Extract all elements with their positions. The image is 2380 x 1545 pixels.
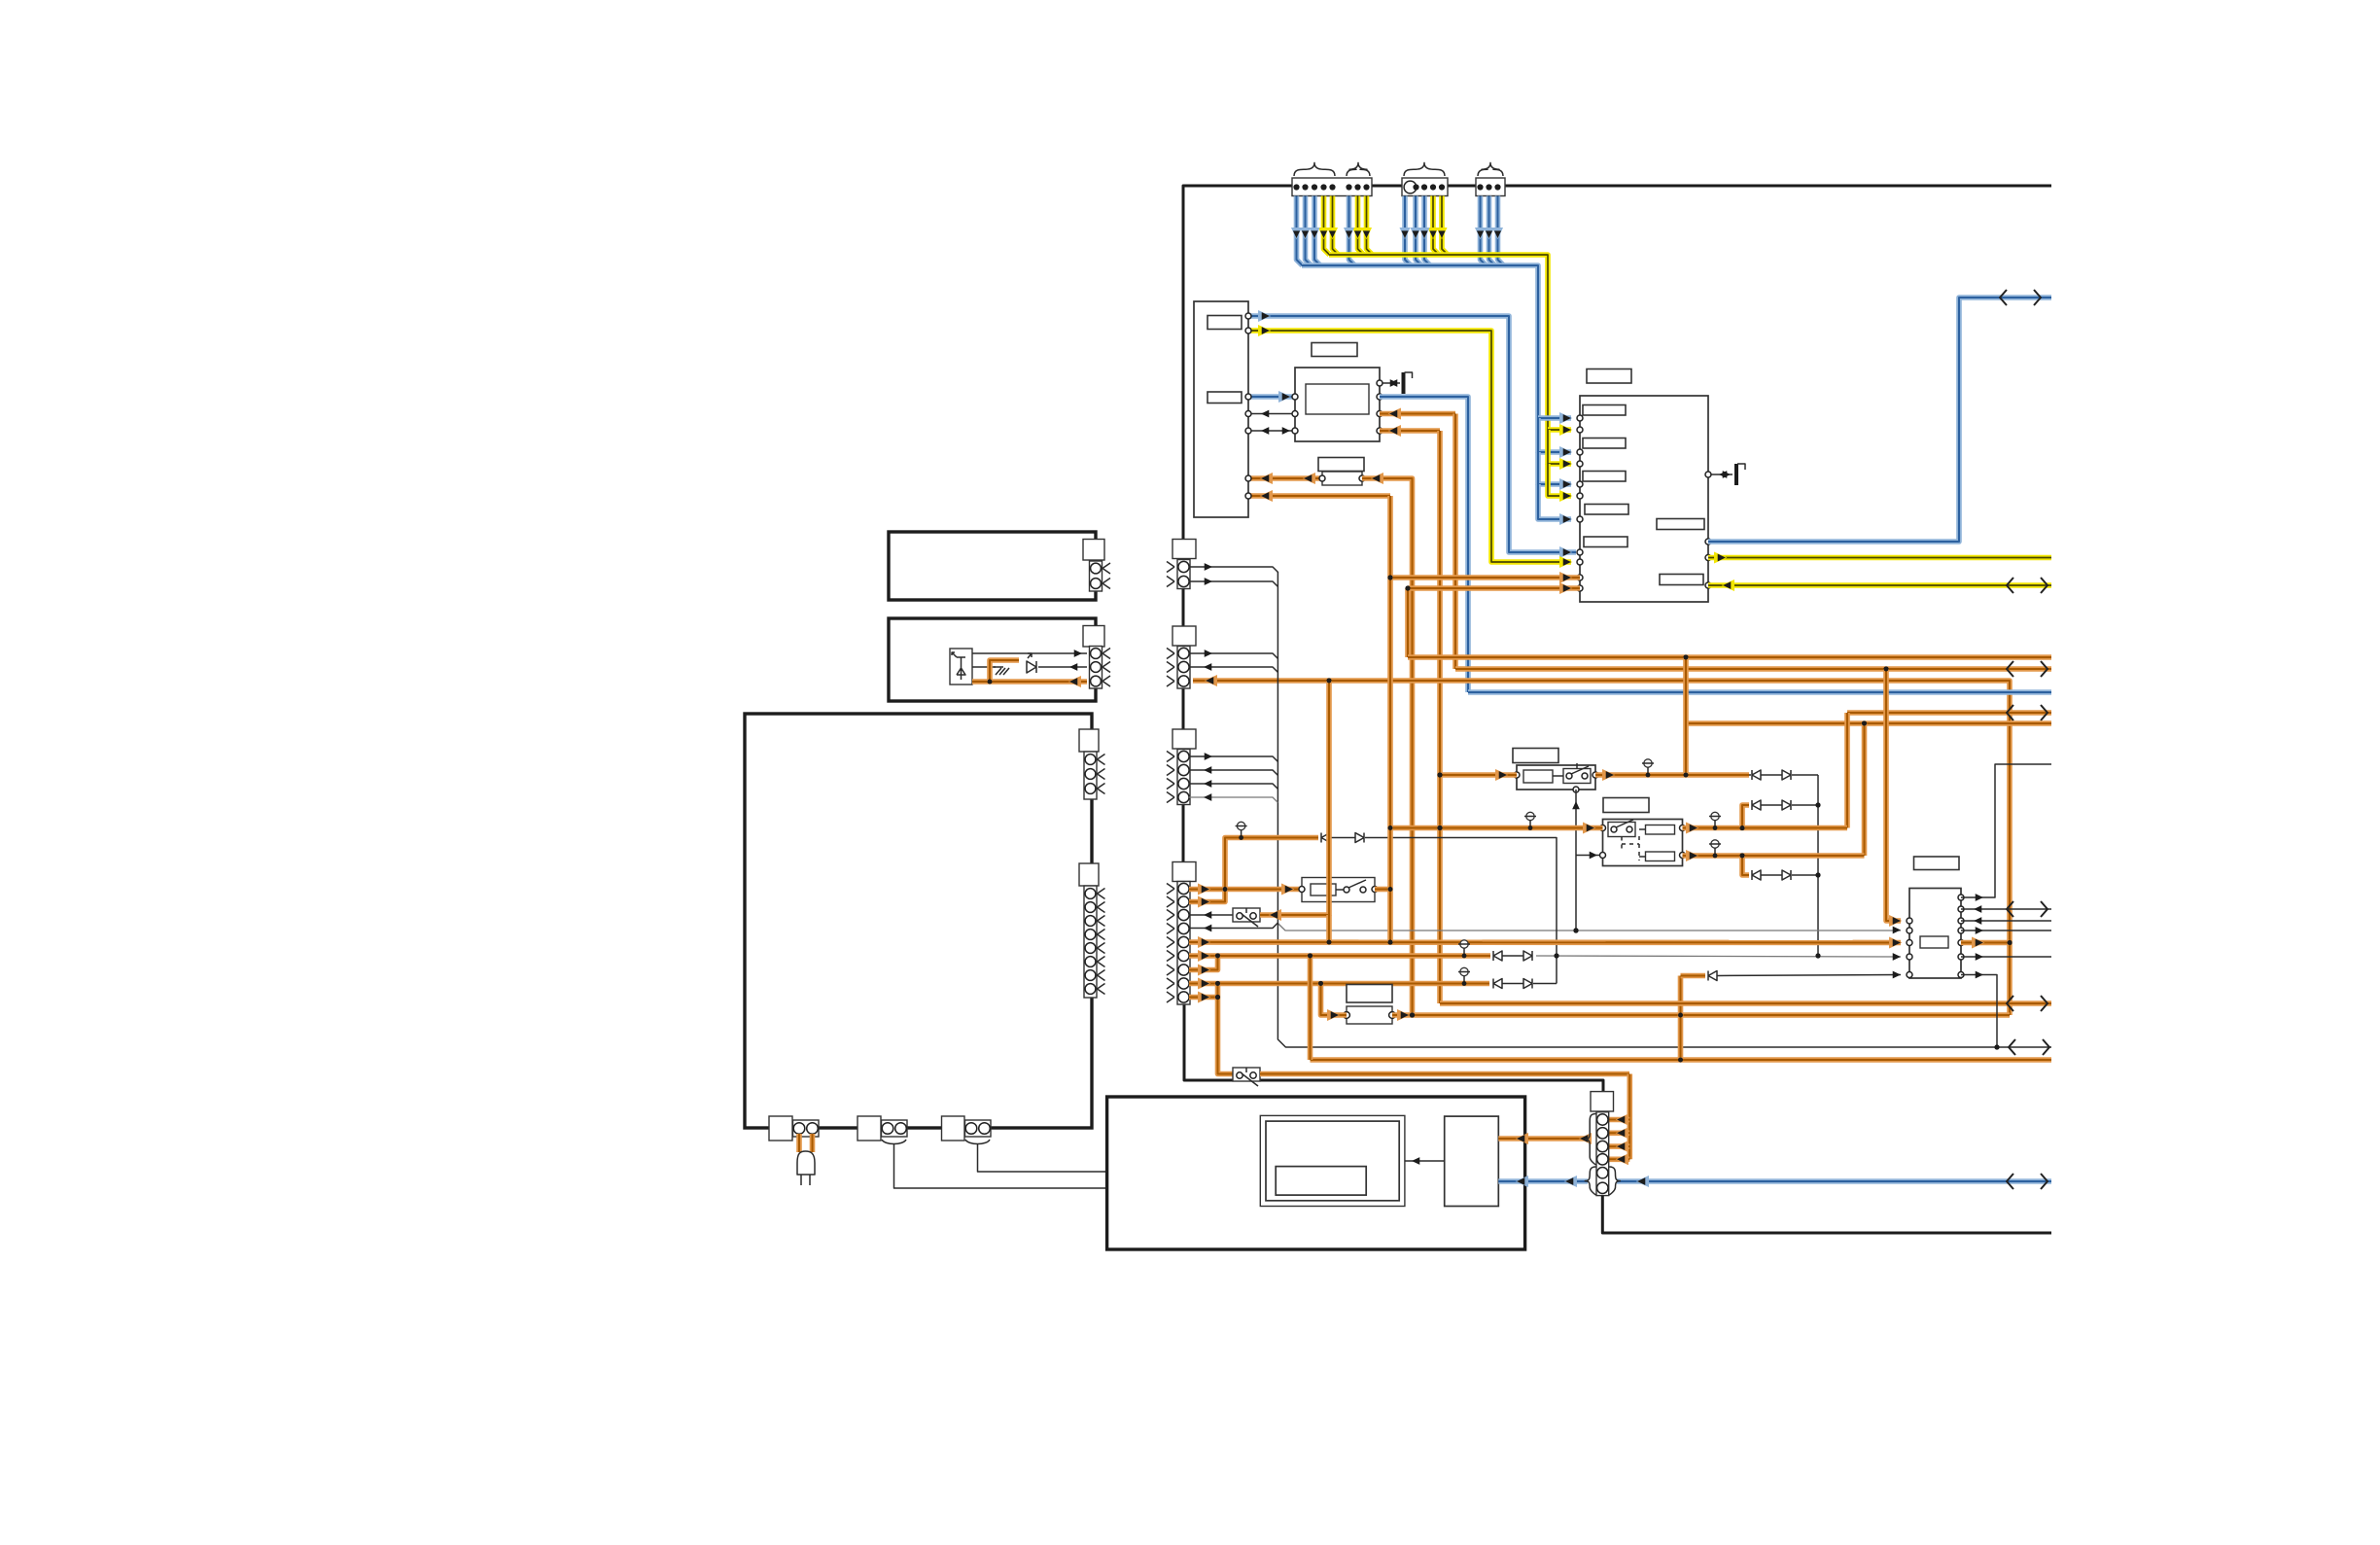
module bottom right unit (1445, 1116, 1499, 1206)
wire thin line861 to V1601 (1365, 838, 1557, 984)
wire bundle yellow drops from top connectors (1324, 196, 1330, 256)
wire orange line594 into control (1390, 575, 1580, 580)
connector on box A (1083, 540, 1104, 561)
wire thin relay1 coil down (1575, 790, 1577, 931)
wire orange line1011 with diodes (1189, 981, 1489, 987)
connector G1 pins (1177, 560, 1190, 589)
label box cu-3 (1583, 472, 1626, 482)
connector bottom-right body (1591, 1092, 1614, 1111)
wire orange V1430 (1387, 496, 1393, 942)
wire blue V1552 into control module pin (1509, 544, 1576, 552)
connector G2 pins (1177, 647, 1190, 689)
wire blue control out loop to offpage (1708, 298, 2051, 542)
wire orange line744 offpage (1686, 720, 2051, 726)
label box left module B (1207, 392, 1242, 404)
connector G4 body (1172, 862, 1196, 882)
wire thin relay1 to relay2 lower pin (1576, 855, 1602, 857)
switch SB (1233, 1068, 1260, 1081)
wire orange G4 p927 riser V1260 (1189, 838, 1318, 902)
connector bottom C2 (857, 1116, 881, 1141)
wire orange diode feed module pin5 (1681, 973, 1706, 979)
wire main harness top (1183, 186, 2051, 1003)
connector G4 pins (1177, 882, 1190, 1005)
wire yellow control out 1 (1708, 555, 2051, 561)
wire orange relay2 out bottom (1683, 853, 1865, 859)
wire orange resistor right from V1452 (1362, 478, 1413, 1015)
label box left module A (1207, 316, 1242, 330)
wire thin G3 pin2 return (1189, 770, 1277, 775)
rect relay2 aux1 (1646, 825, 1675, 835)
wire orange V1940 drop to module (1886, 669, 1901, 921)
module box A (889, 532, 1096, 600)
wire thin G2 pin2 return (1189, 667, 1277, 672)
wire orange SB out line1104 (1260, 1071, 1629, 1077)
wire main harness bottom-left (1184, 1003, 1603, 1092)
diode pair row900 (1752, 870, 1761, 880)
wire orange V1734 (1683, 657, 1689, 775)
wire thin sensor feedback 1 (1248, 413, 1295, 415)
wire blue left-module pin3 to sensor module (1248, 394, 1295, 400)
wire orange sensor pin b from V1481 (1380, 411, 1455, 417)
wire yellow left-module pin2 to V1534 (1248, 331, 1571, 562)
wire thin output pin1 loop top (1961, 764, 2051, 897)
wire orange V1917 riser (1862, 723, 1868, 856)
wire orange left-module pin5 from V1430 (1248, 493, 1390, 499)
wire orange line676 offpage (1408, 654, 2051, 660)
label box above sensor (1312, 343, 1357, 357)
connector bottom C3 (942, 1116, 965, 1141)
wire orange comb to bottom connector (1627, 1074, 1633, 1160)
wire blue sensor out to V1510 (1380, 397, 1468, 692)
module box B (889, 618, 1096, 701)
label box resistor (1318, 458, 1364, 472)
wire orange line688 offpage (1455, 666, 2051, 672)
wire orange V1900 riser (1844, 713, 1850, 828)
wire thin G3 pin1 feed (1189, 756, 1277, 761)
wire orange V1448 link (1405, 588, 1411, 657)
wire thin G1 pin1 feed (1189, 567, 1277, 572)
wire thin output pin6 offpage (1961, 956, 2051, 958)
connector block top-2 (1402, 178, 1448, 196)
wire blue bottom unit left segment (1498, 1178, 1588, 1184)
wire thin output pin2 offpage (1961, 908, 2051, 910)
wire orange line605 into control (1408, 585, 1580, 591)
module output unit box (1909, 889, 1961, 979)
rect relay2 aux2 (1646, 852, 1675, 861)
label box cu-1 (1583, 405, 1626, 416)
diode pair relay1 output (1752, 770, 1761, 780)
diode LED in box B (1027, 661, 1036, 673)
label box output unit (1914, 857, 1960, 870)
wire orange sensor pin c from V1482 (1380, 428, 1440, 434)
wire blue left-module pin1 to V1552 (1248, 316, 1509, 544)
wire orange line1090 offpage (1311, 1057, 2052, 1063)
label box cu-5 (1584, 537, 1627, 547)
wire orange line733 offpage (1847, 710, 2051, 716)
wire orange G4 p914 to relay S1 (1189, 887, 1302, 893)
ground symbol in box B (994, 667, 1009, 675)
connector on box C lower (1079, 863, 1099, 886)
wire orange V1367 lower (1326, 915, 1332, 942)
label box cu-6 (1657, 519, 1704, 530)
wire yellow control out 2 (1708, 582, 2051, 588)
rect bottom box small (1276, 1167, 1366, 1196)
wire orange V1252 to switch SB (1218, 984, 1234, 1074)
connector G3 pins (1177, 750, 1190, 805)
wire thin B pin1 (972, 652, 1087, 654)
label box diode unit (1347, 985, 1392, 1003)
wire thin G1 pin2 feed (1189, 581, 1277, 586)
pins output unit (1907, 918, 1912, 924)
wire blue line712 offpage (1468, 689, 2051, 695)
module left tall box (1194, 301, 1248, 517)
wire yellow bus to V1592 (1329, 255, 1548, 430)
wire orange G4 p1025 link (1189, 995, 1218, 1001)
splice mark on main wire (1175, 334, 1191, 342)
wire thin C2 to bottom box (894, 1144, 1270, 1188)
rect output unit inner (1920, 936, 1948, 948)
connector block top-1 (1292, 178, 1372, 196)
wire orange into bottom right unit (1498, 1136, 1592, 1141)
wire thin G3 pin3 return (1189, 784, 1277, 789)
module bottom double box outer (1260, 1115, 1405, 1206)
wire orange relay1 feed (1440, 772, 1517, 778)
connector G1 body (1172, 540, 1196, 559)
wire orange line969 long to module (1189, 939, 1901, 945)
pins control unit right (1705, 472, 1711, 477)
wire orange relay2 feed line851 (1390, 825, 1603, 831)
component diode unit box (1347, 1006, 1392, 1024)
diode pair row861 (1321, 833, 1330, 843)
connector bottom-right pins (1597, 1114, 1608, 1125)
wire orange output pin5 to V2067 (1961, 940, 2010, 946)
pins sensor module (1292, 394, 1298, 400)
wire orange resistor to left-module (1248, 475, 1322, 481)
relay relay1 box (1517, 765, 1595, 790)
switch relay1 contact (1563, 769, 1591, 784)
diode pair row828 (1752, 800, 1761, 810)
wire thin B pin2 with LED (972, 666, 996, 668)
wire thin G2 pin1 feed (1189, 653, 1277, 658)
connector G2 body (1172, 626, 1196, 646)
wire orange relay2 out top (1683, 825, 1848, 831)
label box cu-4 (1585, 505, 1628, 515)
module bottom double box inner (1266, 1121, 1399, 1201)
wire thin sensor feedback 2 (1248, 430, 1295, 432)
wire orange V1347 drop (1308, 956, 1313, 1060)
wire thin bottom unit to double box (1405, 1160, 1445, 1162)
wire orange line700 long from G2 (1193, 681, 2010, 1015)
wire orange S2 feed from V1367 (1260, 681, 1329, 915)
ground symbol sensor (1380, 382, 1400, 384)
module control unit box (1580, 396, 1708, 602)
wire thin harness trunk (1277, 572, 2051, 1047)
wire gray line957 to module (1277, 924, 1901, 931)
wire orange B branch to LED (990, 660, 1019, 682)
connector bottom C1 (769, 1116, 792, 1141)
connector G3 body (1172, 729, 1196, 749)
wire blue V1582 branches (1538, 415, 1571, 421)
diode pair row983 (1493, 951, 1502, 961)
arrowheads on connector drop wires (1318, 228, 1329, 239)
component zener box in B (950, 649, 972, 685)
wire yellow V1592 branches (1548, 427, 1571, 433)
module box C (745, 714, 1092, 1128)
switch S2 (1233, 908, 1260, 922)
wire orange line1032 offpage (1440, 1001, 2051, 1006)
wire thin output pin7 drop (1961, 975, 1997, 1048)
wire thin V1870 diode bus (1817, 775, 1819, 956)
power plug symbol (796, 1134, 802, 1152)
wire thin G3 pin4 return (1189, 797, 1277, 802)
wire orange B pin3 (972, 679, 1087, 685)
wire orange G4 p997 link (1189, 956, 1218, 970)
label box cu-2 (1583, 439, 1626, 449)
diode pair row1011 (1493, 979, 1502, 989)
junction dots overlay (2008, 940, 2012, 945)
component resistor box (1322, 472, 1362, 485)
wire orange V1481 relay feeds (1437, 431, 1443, 1003)
wire orange diode unit output line1044 (1392, 1012, 2010, 1018)
rect inner sensor (1306, 384, 1369, 414)
wire thin harness exit to G4 p955 (1189, 923, 1277, 929)
label box relay1 (1513, 749, 1558, 763)
connector on box C upper (1079, 729, 1099, 752)
module sensor box (1295, 368, 1380, 441)
relay relay2 box (1603, 820, 1683, 866)
relay S1 box (1302, 878, 1375, 902)
switch relay2 contact (1608, 823, 1635, 837)
wire thin C3 to bottom box (978, 1144, 1270, 1172)
label box cu-7 (1660, 575, 1703, 585)
module bottom box (1107, 1097, 1525, 1249)
wire blue bus to V1582 (1302, 265, 1538, 418)
ground symbol control unit (1708, 474, 1732, 475)
pins control unit left (1577, 415, 1583, 421)
wire orange relay2 diode branch up (1742, 805, 1749, 828)
label box above control unit (1587, 369, 1631, 384)
rect relay1 coil (1523, 770, 1553, 783)
wire orange V1497 to 688 line (1452, 414, 1458, 670)
wire orange S1 out (1375, 887, 1390, 893)
wire blue long from offpage (1617, 1178, 2051, 1184)
label box relay2 (1603, 798, 1649, 813)
wire thin output pin4 offpage (1961, 930, 2051, 931)
wire bundle blue drops from top connectors (1297, 196, 1303, 266)
wire thin output pin3 offpage (1961, 920, 2051, 922)
connector on box B (1083, 626, 1104, 648)
wire orange relay2 diode branch down (1742, 856, 1749, 875)
wire connector bottom-right tail (1602, 1196, 2051, 1233)
wire orange V1728 riser to module pin (1678, 976, 1684, 1061)
wire orange line983 (1189, 953, 1490, 959)
wire orange relay1 output (1595, 772, 1749, 778)
wire thin S2 to G4 p941 (1189, 914, 1233, 916)
connector block top-3 (1476, 178, 1505, 196)
wire orange branch into diode unit (1321, 984, 1347, 1016)
wire thin line983 gray segment (1536, 956, 1901, 957)
